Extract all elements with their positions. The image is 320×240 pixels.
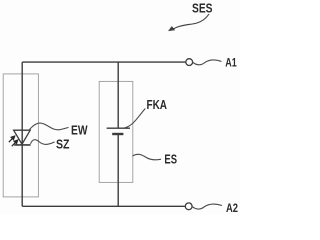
leader squiggle from cathode bar to label SZ	[31, 140, 55, 145]
light arrow 1 into diode	[9, 136, 16, 143]
label ES	[164, 153, 177, 167]
svg-text:A1: A1	[225, 56, 237, 70]
leader from FKA to battery plate	[125, 109, 146, 128]
label SZ	[56, 138, 70, 152]
label FKA	[147, 98, 168, 112]
svg-text:ES: ES	[164, 153, 177, 167]
label SES	[192, 2, 213, 16]
svg-text:SES: SES	[192, 2, 213, 16]
terminal A2: open circle	[185, 203, 192, 210]
leader squiggle from box to label ES	[133, 154, 161, 160]
photosensitive diode SZ: triangle	[14, 130, 31, 144]
battery FKA: short thick negative plate	[112, 133, 123, 135]
svg-text:EW: EW	[71, 124, 88, 138]
leader squiggle to label A2	[193, 204, 223, 209]
terminal A1: open circle	[186, 59, 193, 66]
svg-text:FKA: FKA	[147, 98, 168, 112]
wire: bottom horizontal to terminal A2	[22, 205, 185, 207]
label EW	[71, 124, 88, 138]
svg-text:A2: A2	[226, 201, 238, 215]
curved arrow from SES pointing to circuit	[168, 14, 209, 31]
label A2	[226, 201, 238, 215]
leader squiggle to label A1	[193, 60, 222, 65]
label A1	[225, 56, 237, 70]
wire: middle vertical, bottom section from battery to bottom wire	[117, 134, 119, 206]
wire: left vertical branch	[21, 62, 23, 206]
leader squiggle from diode to label EW	[30, 123, 69, 130]
enclosure box ES (energy store)	[99, 81, 133, 182]
wire: middle vertical, top section to battery plate	[117, 62, 119, 128]
battery FKA: long positive plate	[107, 127, 130, 129]
svg-text:SZ: SZ	[56, 138, 70, 152]
photosensitive diode SZ: cathode bar	[14, 144, 30, 146]
enclosure box around photosensitive diode SZ	[3, 74, 38, 197]
wire: top horizontal from left branch to terminal A1	[22, 61, 185, 63]
light arrow 2 into diode	[12, 140, 18, 147]
